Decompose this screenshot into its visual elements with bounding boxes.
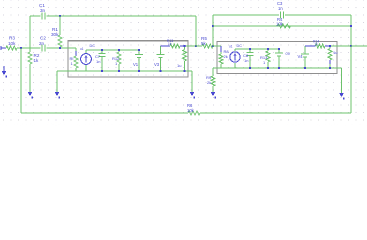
svg-text:1n: 1n [278, 6, 283, 11]
svg-text:2k: 2k [224, 54, 228, 59]
svg-text:10k: 10k [8, 41, 16, 46]
svg-text:10k: 10k [276, 22, 284, 27]
svg-text:1u: 1u [333, 50, 337, 55]
svg-text:1k: 1k [315, 43, 319, 47]
svg-text:3n: 3n [40, 8, 46, 13]
svg-text:V3: V3 [154, 62, 160, 67]
svg-text:2n: 2n [39, 41, 45, 46]
svg-text:1u: 1u [177, 63, 181, 68]
svg-text:V4: V4 [298, 54, 304, 59]
svg-text:1k: 1k [34, 58, 40, 63]
svg-text:DC: DC [237, 44, 243, 48]
svg-text:30k: 30k [51, 32, 59, 37]
svg-text:C2: C2 [40, 36, 46, 41]
svg-text:V1: V1 [133, 62, 139, 67]
svg-text:1k: 1k [168, 42, 172, 46]
svg-text:u1: u1 [229, 45, 233, 49]
svg-text:10k: 10k [187, 108, 195, 113]
svg-text:R3: R3 [9, 36, 15, 41]
svg-text:DC: DC [90, 44, 96, 48]
svg-text:u1: u1 [80, 47, 84, 51]
svg-text:2k: 2k [207, 80, 211, 85]
svg-text:1n: 1n [96, 59, 100, 64]
svg-text:1n: 1n [244, 58, 248, 63]
svg-text:5k: 5k [201, 41, 207, 46]
svg-text:0V: 0V [286, 52, 291, 56]
